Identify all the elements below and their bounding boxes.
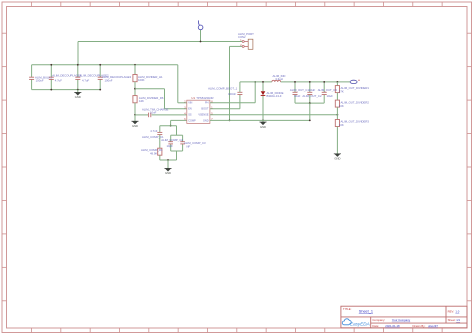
svg-text:49.9K: 49.9K: [150, 152, 157, 156]
svg-text:Date:: Date:: [372, 324, 379, 328]
svg-text:Sheet:: Sheet:: [448, 318, 456, 322]
svg-text:GND: GND: [75, 95, 81, 99]
svg-text:10pF: 10pF: [167, 144, 174, 148]
svg-text:10K: 10K: [339, 104, 344, 108]
svg-text:EN: EN: [188, 108, 192, 111]
svg-text:NF: NF: [187, 144, 191, 148]
svg-text:2021-01-18: 2021-01-18: [385, 324, 400, 328]
svg-text:BOOT: BOOT: [201, 108, 209, 111]
svg-text:GND: GND: [203, 119, 209, 122]
svg-text:PH: PH: [205, 102, 209, 105]
svg-text:4.7uF: 4.7uF: [55, 79, 62, 83]
svg-text:Company:: Company:: [372, 318, 385, 322]
svg-text:ALIM_OUT_DIVIDER1: ALIM_OUT_DIVIDER1: [341, 86, 370, 90]
svg-text:COMP: COMP: [188, 119, 196, 122]
svg-text:TITLE:: TITLE:: [343, 307, 352, 311]
svg-text:ALIM_OUT_C1: ALIM_OUT_C1: [290, 88, 310, 92]
svg-text:ALIM_COMP_C2: ALIM_COMP_C2: [161, 138, 183, 142]
svg-text:44K: 44K: [139, 99, 144, 103]
svg-text:CON2: CON2: [238, 35, 246, 39]
svg-text:1/1: 1/1: [456, 318, 460, 322]
svg-text:ALIM_OUT_DIVIDER3: ALIM_OUT_DIVIDER3: [341, 120, 370, 124]
svg-text:GND: GND: [260, 125, 266, 129]
svg-text:VIN: VIN: [188, 102, 192, 105]
svg-text:B340A-13-F: B340A-13-F: [267, 94, 282, 98]
svg-text:100nF: 100nF: [105, 79, 113, 83]
svg-text:100nF: 100nF: [228, 92, 236, 96]
svg-text:10nF: 10nF: [150, 111, 157, 115]
svg-text:Sheet_1: Sheet_1: [359, 310, 373, 314]
svg-text:Your Company: Your Company: [392, 318, 411, 322]
svg-text:3.3uH: 3.3uH: [275, 77, 282, 81]
svg-text:4.7nF: 4.7nF: [150, 129, 157, 133]
svg-text:oliver97: oliver97: [428, 324, 438, 328]
svg-text:100K: 100K: [138, 78, 145, 82]
svg-text:10K: 10K: [339, 123, 344, 127]
svg-text:SS: SS: [188, 114, 192, 117]
svg-text:1.0: 1.0: [455, 309, 459, 313]
svg-text:GND: GND: [132, 124, 138, 128]
svg-text:ALIM_OUT_DIVIDER2: ALIM_OUT_DIVIDER2: [341, 101, 370, 105]
svg-text:10uF: 10uF: [309, 88, 316, 92]
svg-text:GND: GND: [334, 157, 340, 161]
svg-text:ALIM_OUT_C3: ALIM_OUT_C3: [318, 88, 338, 92]
svg-text:VSENSE: VSENSE: [198, 114, 208, 117]
svg-text:100uF: 100uF: [36, 79, 44, 83]
svg-text:10uF: 10uF: [294, 94, 301, 98]
svg-text:ALIM_DECOUPLAGE1: ALIM_DECOUPLAGE1: [52, 73, 82, 77]
svg-text:Drawn By:: Drawn By:: [413, 324, 426, 328]
svg-text:EasyEDA: EasyEDA: [350, 322, 370, 327]
svg-text:10uF: 10uF: [327, 94, 334, 98]
svg-text:ALIM_COMP_BOOT_1: ALIM_COMP_BOOT_1: [208, 87, 238, 91]
svg-text:ALIM_OUT_C2: ALIM_OUT_C2: [302, 94, 322, 98]
svg-text:REV:: REV:: [448, 309, 455, 313]
svg-text:57K: 57K: [339, 90, 344, 94]
svg-text:GND: GND: [165, 171, 171, 175]
svg-text:U1: U1: [191, 96, 195, 100]
svg-text:4.7uF: 4.7uF: [82, 79, 89, 83]
